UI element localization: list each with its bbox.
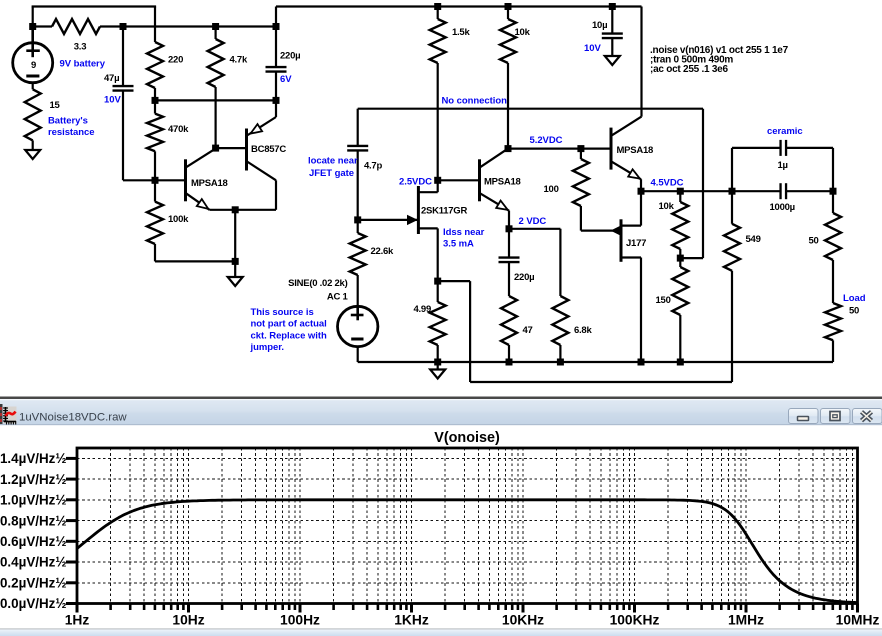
bottom window strip [0,628,882,629]
wire rail 100 [155,99,276,101]
svg-text:10MHz: 10MHz [836,613,880,628]
svg-text:10V: 10V [104,95,121,106]
svg-text:1000µ: 1000µ [770,202,795,213]
svg-text:100k: 100k [168,214,189,225]
svg-text:1uVNoise18VDC.raw: 1uVNoise18VDC.raw [19,412,127,424]
titlebar background [0,399,882,425]
svg-text:6V: 6V [280,74,292,85]
node 10u top [609,3,616,10]
wire ground lead [437,362,439,370]
capacitor C 1u ceramic [731,148,733,191]
svg-text:0.2µV/Hz½: 0.2µV/Hz½ [0,576,67,591]
svg-text:100: 100 [544,184,559,195]
svg-text:2SK117GR: 2SK117GR [421,206,467,217]
svg-text:2.5VDC: 2.5VDC [399,177,432,188]
transistor Q4 MPSA18 npn third [610,128,613,170]
wire 2VDC to 6.8k [509,228,560,230]
svg-text:MPSA18: MPSA18 [484,176,521,187]
wire mid horizontal 108.7 [358,108,703,110]
resistor R 1.5k [437,7,439,20]
y axis ticks [66,602,77,605]
node 150 bottom junction [677,359,684,366]
svg-text:47: 47 [523,325,533,336]
svg-text:1.2µV/Hz½: 1.2µV/Hz½ [0,472,67,487]
capacitor C 10u [611,7,613,34]
wire top rail right [276,5,642,7]
close button [853,409,882,424]
node 47u top [120,23,127,30]
svg-text:Load: Load [843,293,866,304]
svg-text:BC857C: BC857C [251,144,286,155]
node 549 top junction [729,188,736,195]
svg-text:1.0µV/Hz½: 1.0µV/Hz½ [0,493,67,508]
node 2.5VDC junction [434,177,441,184]
transistor Q2 BC857C pnp [216,147,246,149]
wire feedback to 549 bottom [438,280,470,282]
resistor R 100k [154,180,156,201]
svg-text:ckt. Replace with: ckt. Replace with [251,331,327,342]
svg-text:3.3: 3.3 [74,42,86,53]
svg-text:1Hz: 1Hz [65,613,90,628]
svg-text:1MHz: 1MHz [728,613,764,628]
wire top rail left (battery to 220 top) [32,5,157,7]
minimize button [789,409,819,424]
node ground junction [232,258,239,265]
node 2VDC junction [506,225,513,232]
node 1.5k top [434,3,441,10]
svg-text:15: 15 [50,100,61,111]
svg-text:10k: 10k [515,27,531,38]
wire 4.5VDC rail [641,190,780,192]
transistor Q5 J177 pjf [620,219,623,261]
node battery+ junction [29,23,36,30]
node emitter junction [232,206,239,213]
svg-text:100Hz: 100Hz [280,613,320,628]
resistor R15 battery resistance [32,83,34,90]
svg-text:150: 150 [656,295,671,306]
ground main rail [430,370,445,379]
svg-text:5.2VDC: 5.2VDC [530,135,563,146]
svg-text:50: 50 [849,306,859,317]
svg-text:No connection: No connection [442,96,508,107]
svg-text:jumper.: jumper. [250,342,284,353]
svg-text:JFET gate: JFET gate [309,168,354,179]
capacitor C 1000u [779,183,781,199]
x axis ticks [76,604,79,613]
node 220u top [273,23,280,30]
node 4.5VDC junction [638,188,645,195]
node 10k2 top junction [677,188,684,195]
node 4.7k top [212,23,219,30]
battery V1 9V [13,43,53,83]
wire rail 26.5 to caps [123,25,276,27]
svg-text:ceramic: ceramic [767,126,803,137]
resistor R 220 [147,42,163,88]
resistor R 3.3 (series) [33,25,52,27]
curve V(onoise) [77,500,858,603]
ground battery [25,150,40,159]
resistor R 4.99 [437,281,439,302]
svg-text:3.5 mA: 3.5 mA [443,239,474,250]
svg-text:10k: 10k [659,201,675,212]
wire collector fb loop [702,109,704,258]
svg-text:V(onoise): V(onoise) [434,430,500,446]
ground left block [228,277,243,286]
svg-text:This source is: This source is [251,307,314,318]
svg-text:100KHz: 100KHz [610,613,660,628]
svg-text:220µ: 220µ [514,272,534,283]
svg-text:SINE(0 .02 2k): SINE(0 .02 2k) [288,278,347,289]
ground 10u [605,56,620,65]
wire source to ground rail [357,347,359,362]
maximize button [821,409,851,424]
voltage source V1 SINE [338,306,378,346]
svg-text:10V: 10V [584,43,601,54]
resistor R 6.8k [552,296,568,345]
svg-text:MPSA18: MPSA18 [191,178,228,189]
node Q1 collector junction [212,145,219,152]
resistor R 10k second [679,191,681,202]
svg-text:50: 50 [809,236,819,247]
capacitor C 220u 6V [275,27,277,68]
svg-text:AC 1: AC 1 [327,292,349,303]
wire emitter to ground rail [234,210,236,262]
svg-text:0.8µV/Hz½: 0.8µV/Hz½ [0,513,67,528]
node 50 mid junction [830,188,837,195]
transistor J1 2SK117GR njf [417,186,420,234]
svg-text:4.7p: 4.7p [364,161,382,172]
capacitor C 4.7p [347,145,368,147]
svg-text:4.5VDC: 4.5VDC [651,178,684,189]
node 5.2VDC junction [505,145,512,152]
svg-text:4.99: 4.99 [414,304,432,315]
svg-text:;ac oct 255 .1 3e6: ;ac oct 255 .1 3e6 [650,64,728,75]
svg-text:10µ: 10µ [592,20,607,31]
clipped app icon [0,404,3,424]
resistor R 22.6k [357,220,359,233]
svg-text:10Hz: 10Hz [172,613,204,628]
wire 5.2VDC to Q4 base [508,148,610,150]
resistor R 10k first [507,7,509,20]
node 10k2-150 junction [677,255,684,262]
plot frame [77,448,858,604]
window top border [0,397,882,400]
svg-text:0.6µV/Hz½: 0.6µV/Hz½ [0,534,67,549]
transistor Q1 MPSA18 npn [123,179,184,181]
svg-text:220: 220 [168,55,183,66]
svg-text:47µ: 47µ [104,73,119,84]
plot window icon [4,407,17,424]
node 220 bottom junction [152,97,159,104]
svg-text:1µ: 1µ [778,160,788,171]
svg-text:0.0µV/Hz½: 0.0µV/Hz½ [0,596,67,611]
svg-text:MPSA18: MPSA18 [617,145,654,156]
node 10k top [505,3,512,10]
resistor R 150 [679,258,681,267]
node 47 bottom junction [506,359,513,366]
resistor R 549 [731,191,733,224]
svg-text:10KHz: 10KHz [502,613,544,628]
capacitor C 220u second [508,229,510,258]
resistor R 50 load [825,303,841,340]
svg-text:not part of actual: not part of actual [251,319,327,330]
node J177 source bottom junction [638,359,645,366]
resistor R 4.7k [215,27,217,40]
svg-text:0.4µV/Hz½: 0.4µV/Hz½ [0,555,67,570]
svg-text:220µ: 220µ [280,51,300,62]
node 100 top junction [577,145,584,152]
node 220u bottom junction [273,97,280,104]
svg-text:Battery's: Battery's [48,116,88,127]
node 4.99 bottom junction [434,359,441,366]
svg-text:4.7k: 4.7k [230,55,248,66]
svg-text:22.6k: 22.6k [371,246,394,257]
svg-text:9V battery: 9V battery [60,59,106,70]
svg-text:locate near: locate near [308,156,358,167]
resistor R 470k [154,100,156,113]
resistor R 100 [580,149,582,159]
svg-text:9: 9 [31,60,36,71]
svg-text:resistance: resistance [48,127,95,138]
svg-text:J177: J177 [626,238,646,249]
svg-text:1.4µV/Hz½: 1.4µV/Hz½ [0,451,67,466]
svg-text:470k: 470k [168,124,189,135]
node JFET source junction [434,278,441,285]
resistor R 47 [501,296,517,345]
node 6.8k bottom junction [557,359,564,366]
plot vertical gridlines [111,448,853,604]
svg-text:2 VDC: 2 VDC [519,216,547,227]
resistor R 50 upper [832,148,834,213]
svg-text:6.8k: 6.8k [574,325,592,336]
svg-text:1.5k: 1.5k [452,27,470,38]
node 470k-100k junction [152,177,159,184]
svg-text:Idss near: Idss near [443,227,485,238]
transistor Q3 MPSA18 npn second [438,179,479,181]
plot horizontal gridlines [77,458,858,582]
node JFET gate junction [354,216,361,223]
svg-text:549: 549 [746,234,761,245]
capacitor C 47u [122,27,124,87]
svg-text:1KHz: 1KHz [394,613,429,628]
